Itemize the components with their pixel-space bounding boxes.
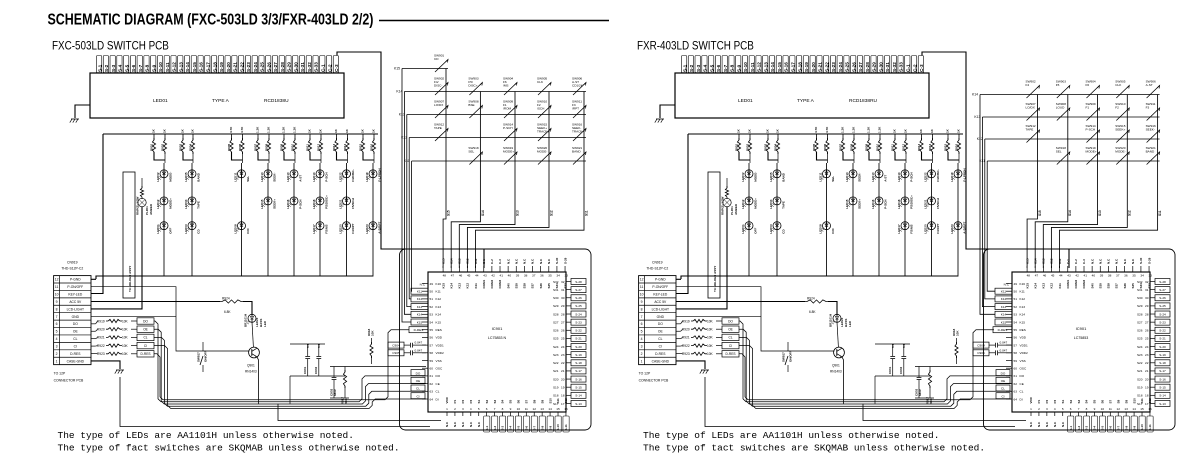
switch SW905 (CLK) xyxy=(1116,86,1129,99)
svg-text:FS/MS: FS/MS xyxy=(324,225,328,234)
pin 52 (K13) xyxy=(422,306,428,308)
IC IC901 LC75853 xyxy=(428,272,566,412)
svg-text:S1: S1 xyxy=(477,399,481,403)
svg-text:7: 7 xyxy=(56,315,58,319)
svg-text:S-13: S-13 xyxy=(1159,402,1166,406)
wire: LED column xyxy=(931,163,933,277)
wire: switch matrix column 2 xyxy=(1067,95,1069,218)
svg-text:LED02: LED02 xyxy=(741,172,745,182)
pin 16 xyxy=(1149,412,1151,416)
svg-text:S-17: S-17 xyxy=(1159,369,1166,373)
svg-text:CN919: CN919 xyxy=(652,261,663,265)
net CL label xyxy=(996,385,1010,391)
wire: osc gnd rail xyxy=(330,397,349,399)
net S-13 stub xyxy=(1155,400,1170,406)
svg-text:S-2: S-2 xyxy=(493,426,497,431)
svg-text:S21: S21 xyxy=(1137,369,1143,373)
net S-3 stub xyxy=(500,416,506,432)
svg-text:S-28: S-28 xyxy=(575,280,582,284)
wire: P-GND to cathode bus xyxy=(676,278,681,280)
net S-18 stub xyxy=(1155,360,1170,366)
svg-text:S-23: S-23 xyxy=(831,62,836,72)
svg-text:CD1/2K: CD1/2K xyxy=(572,83,584,87)
svg-text:N.C: N.C xyxy=(1045,421,1049,427)
switch SW904 (F6) xyxy=(504,83,517,96)
pin 46 (K13) xyxy=(1042,266,1044,272)
svg-text:LED03: LED03 xyxy=(769,224,773,234)
pin 13 xyxy=(541,412,543,416)
wire: LED module to ground xyxy=(660,105,675,118)
LED LED10 xyxy=(290,170,298,178)
svg-text:K15: K15 xyxy=(394,67,400,71)
svg-text:LED12: LED12 xyxy=(741,199,745,209)
wire: pair junction xyxy=(922,152,933,160)
svg-text:P2: P2 xyxy=(461,399,465,403)
svg-text:DO: DO xyxy=(658,322,663,326)
wire: K11 to IC xyxy=(410,161,413,291)
switch SW910 (F2) xyxy=(538,106,551,119)
svg-text:K11: K11 xyxy=(474,258,478,264)
svg-text:DO: DO xyxy=(1020,374,1025,378)
wire: pair junction xyxy=(817,152,828,160)
svg-text:1.2K: 1.2K xyxy=(878,126,882,133)
svg-text:F1: F1 xyxy=(1086,105,1090,109)
svg-text:LED: LED xyxy=(263,320,267,327)
svg-text:P1: P1 xyxy=(1037,399,1041,403)
svg-text:K12: K12 xyxy=(466,283,470,289)
svg-text:33: 33 xyxy=(1149,274,1153,278)
net S-22 stub xyxy=(571,327,586,333)
svg-text:S-29: S-29 xyxy=(1147,257,1151,264)
svg-text:S36: S36 xyxy=(1123,283,1127,289)
svg-text:S37: S37 xyxy=(1115,283,1119,289)
svg-text:6: 6 xyxy=(1070,407,1072,411)
svg-text:41: 41 xyxy=(499,274,503,278)
svg-text:K14: K14 xyxy=(449,283,453,289)
svg-text:63: 63 xyxy=(1014,390,1018,394)
svg-text:R916: R916 xyxy=(954,143,958,151)
pin 12 xyxy=(1117,412,1119,416)
svg-text:OE: OE xyxy=(1001,379,1005,383)
svg-text:DO: DO xyxy=(73,322,78,326)
svg-text:TAPE: TAPE xyxy=(196,201,200,209)
wire: K12 to IC xyxy=(409,138,411,299)
svg-text:1.2K: 1.2K xyxy=(867,126,871,133)
svg-text:C901: C901 xyxy=(303,366,307,374)
svg-text:TO 12P: TO 12P xyxy=(639,372,651,376)
svg-text:DO: DO xyxy=(1001,371,1006,375)
LED LED03 xyxy=(773,222,781,230)
capacitor C902 0.1 xyxy=(903,344,905,356)
svg-text:S3: S3 xyxy=(1077,399,1081,403)
svg-text:S-10: S-10 xyxy=(158,62,163,72)
svg-text:52: 52 xyxy=(1014,305,1018,309)
net OE label xyxy=(411,377,425,383)
svg-text:2: 2 xyxy=(641,352,643,356)
wire: DO to IC xyxy=(154,321,426,402)
wire: bottom bus xyxy=(863,404,1026,421)
switch SW906 (A-ST) xyxy=(573,83,586,96)
svg-text:49: 49 xyxy=(1014,282,1018,286)
pin 49 (K16) xyxy=(422,283,428,285)
svg-text:21: 21 xyxy=(1145,369,1149,373)
svg-text:39: 39 xyxy=(516,274,520,278)
svg-text:27: 27 xyxy=(561,320,565,324)
svg-text:A-ST: A-ST xyxy=(883,175,887,182)
pin 19 (S19) xyxy=(1150,386,1155,388)
svg-text:S-5: S-5 xyxy=(1101,426,1105,431)
pin 11 xyxy=(1109,412,1111,416)
svg-text:K13: K13 xyxy=(1020,305,1026,309)
svg-text:CLK: CLK xyxy=(1115,83,1122,87)
net S-5 stub xyxy=(515,416,521,432)
svg-text:S-4: S-4 xyxy=(703,64,708,72)
svg-text:R908: R908 xyxy=(849,143,853,151)
LED LED22 xyxy=(343,170,351,178)
pin 28 (S28) xyxy=(566,313,571,315)
svg-text:S35: S35 xyxy=(547,283,551,289)
svg-text:C904: C904 xyxy=(977,343,985,347)
switch SW907 (LO/DX) xyxy=(435,106,448,119)
title rule xyxy=(379,20,609,22)
pin 58 (VDD2) xyxy=(1006,352,1012,354)
resistor R913 xyxy=(921,134,923,140)
svg-text:P-SCH: P-SCH xyxy=(909,172,913,181)
svg-text:S-24: S-24 xyxy=(838,62,843,72)
svg-text:S6: S6 xyxy=(1101,399,1105,403)
pin 2 xyxy=(1038,412,1040,416)
net S-3 stub xyxy=(1084,416,1090,432)
svg-text:K15: K15 xyxy=(1025,283,1029,289)
net S-10 stub xyxy=(555,416,561,432)
resistor R921 10K xyxy=(91,338,96,340)
svg-text:R903: R903 xyxy=(178,143,182,151)
svg-text:N.C: N.C xyxy=(1053,421,1057,427)
svg-text:59: 59 xyxy=(430,359,434,363)
lamp PL901 AMBER xyxy=(138,198,146,206)
svg-text:64: 64 xyxy=(1014,397,1018,401)
svg-text:SEL: SEL xyxy=(468,149,474,153)
wire: LED column xyxy=(346,163,348,277)
svg-text:DISC+: DISC+ xyxy=(468,83,477,87)
net S-6 stub xyxy=(523,416,529,432)
svg-text:S26: S26 xyxy=(1137,329,1143,333)
pin 21 (S21) xyxy=(566,370,571,372)
pin 9 xyxy=(509,412,511,416)
LED LED23 (BR1101H) BASS LED xyxy=(833,314,841,322)
svg-text:K11: K11 xyxy=(436,290,442,294)
wire: column 1 to IC xyxy=(1027,217,1037,268)
svg-text:8: 8 xyxy=(56,307,58,311)
svg-text:S-33: S-33 xyxy=(314,62,319,72)
svg-text:S27: S27 xyxy=(1137,320,1143,324)
LED LED01 xyxy=(745,222,753,230)
net S-25 stub xyxy=(571,303,586,309)
svg-text:36K: 36K xyxy=(929,398,933,404)
svg-text:45: 45 xyxy=(467,274,471,278)
pin 56 (VDD) xyxy=(422,336,428,338)
svg-text:47: 47 xyxy=(1035,274,1039,278)
svg-text:LED13: LED13 xyxy=(312,172,316,182)
svg-text:S-5: S-5 xyxy=(517,426,521,431)
svg-text:S-32: S-32 xyxy=(307,62,312,72)
svg-text:S-7: S-7 xyxy=(138,64,143,72)
wire: column 2 to IC xyxy=(1035,217,1068,268)
wire: Q901 emitter down xyxy=(842,357,844,404)
net S-19 stub xyxy=(1155,352,1170,358)
svg-text:16: 16 xyxy=(564,407,568,411)
svg-text:7: 7 xyxy=(1078,407,1080,411)
svg-text:S-13: S-13 xyxy=(763,62,768,72)
pin 35 (S35) xyxy=(548,266,550,272)
capacitor C903 680P xyxy=(918,367,920,378)
svg-text:LED20: LED20 xyxy=(923,224,927,234)
LED display module LED01 (RCD1838RU) xyxy=(675,73,929,118)
svg-text:S-18: S-18 xyxy=(575,361,582,365)
svg-text:DI: DI xyxy=(436,397,439,401)
svg-text:LED15: LED15 xyxy=(845,199,849,209)
svg-text:CL: CL xyxy=(1020,390,1024,394)
svg-text:S-18: S-18 xyxy=(1159,361,1166,365)
svg-text:8: 8 xyxy=(1086,407,1088,411)
svg-text:P-ON/OFF: P-ON/OFF xyxy=(652,285,668,289)
net S-23 stub xyxy=(571,319,586,325)
svg-text:54: 54 xyxy=(1014,320,1018,324)
switch SW907 (LO/DX) xyxy=(1027,108,1040,121)
svg-text:55: 55 xyxy=(430,328,434,332)
pin 31 (S31) xyxy=(1150,289,1155,291)
svg-text:52: 52 xyxy=(430,305,434,309)
svg-text:10K: 10K xyxy=(122,336,129,340)
svg-text:C902: C902 xyxy=(314,366,318,374)
net K15 row xyxy=(402,68,448,70)
pin 1 xyxy=(446,412,448,416)
svg-text:S-27: S-27 xyxy=(858,62,863,72)
svg-text:44: 44 xyxy=(475,274,479,278)
wire: cap rail xyxy=(290,343,325,345)
svg-text:S-23: S-23 xyxy=(575,320,582,324)
svg-text:CL: CL xyxy=(1001,387,1005,391)
LED LED18 xyxy=(901,197,909,205)
svg-text:14: 14 xyxy=(1132,407,1136,411)
svg-text:12: 12 xyxy=(533,407,537,411)
pin 16 xyxy=(565,412,567,416)
resistor R904 xyxy=(777,134,779,140)
wire: GND rail xyxy=(676,315,761,317)
resistor R911 xyxy=(309,134,311,140)
svg-text:CL: CL xyxy=(143,336,147,340)
svg-text:S-8: S-8 xyxy=(540,426,544,431)
pin 40 (S40) xyxy=(1091,266,1093,272)
svg-text:18: 18 xyxy=(561,394,565,398)
net K13 stub xyxy=(995,304,1012,310)
svg-text:S12: S12 xyxy=(564,398,568,404)
svg-text:R913: R913 xyxy=(332,143,336,151)
LED LED04 xyxy=(773,197,781,205)
svg-text:S-13: S-13 xyxy=(575,402,582,406)
svg-text:26: 26 xyxy=(1145,329,1149,333)
svg-text:1: 1 xyxy=(641,359,643,363)
svg-text:R912: R912 xyxy=(316,143,320,151)
svg-text:S-7: S-7 xyxy=(723,64,728,72)
net S-1 stub xyxy=(1068,416,1074,432)
svg-text:1: 1 xyxy=(56,359,58,363)
svg-text:R915: R915 xyxy=(943,143,947,151)
svg-text:R922: R922 xyxy=(97,344,105,348)
svg-text:DISC-: DISC- xyxy=(434,83,442,87)
pin 56 (VDD) xyxy=(1006,336,1012,338)
pin 50 (K11) xyxy=(422,290,428,292)
svg-text:S-19: S-19 xyxy=(219,62,224,72)
svg-text:LC75853 N: LC75853 N xyxy=(488,336,507,340)
svg-text:S29: S29 xyxy=(553,304,559,308)
svg-text:S-22: S-22 xyxy=(1159,329,1166,333)
svg-text:COM2: COM2 xyxy=(490,280,494,289)
LED LED03 xyxy=(188,222,196,230)
pin 9 xyxy=(1093,412,1095,416)
svg-text:S-24: S-24 xyxy=(575,312,582,316)
svg-text:10K: 10K xyxy=(707,328,714,332)
svg-text:S24: S24 xyxy=(1137,345,1143,349)
svg-text:BSE: BSE xyxy=(468,103,474,107)
pin 63 (CL) xyxy=(1006,390,1012,392)
svg-text:The type of LEDs are AA1101H u: The type of LEDs are AA1101H unless othe… xyxy=(58,430,354,441)
pin 49 (K16) xyxy=(1006,283,1012,285)
svg-text:0.047: 0.047 xyxy=(415,348,423,352)
svg-text:CI: CI xyxy=(1001,394,1004,398)
pin 23 (S23) xyxy=(1150,354,1155,356)
svg-text:13: 13 xyxy=(540,407,544,411)
wire: CASE-GND to ground xyxy=(676,361,705,369)
svg-text:CI: CI xyxy=(659,344,662,348)
pin 42 (COM2) xyxy=(491,266,493,272)
wire: CL to IC xyxy=(739,337,1011,406)
svg-text:K14: K14 xyxy=(396,90,402,94)
svg-text:S-15: S-15 xyxy=(1159,385,1166,389)
wire: LED column xyxy=(826,163,828,277)
net S-25 stub xyxy=(1155,303,1170,309)
pin 34 (S34) xyxy=(556,266,558,272)
svg-text:VDD1: VDD1 xyxy=(436,343,445,347)
svg-text:COM3: COM3 xyxy=(498,280,502,289)
svg-text:S29: S29 xyxy=(1137,304,1143,308)
svg-text:LO/DX: LO/DX xyxy=(434,103,443,107)
svg-text:36: 36 xyxy=(540,274,544,278)
net K11 row xyxy=(412,160,586,162)
svg-text:S30: S30 xyxy=(1137,296,1143,300)
svg-text:SEEK-: SEEK- xyxy=(272,173,276,182)
svg-text:53: 53 xyxy=(1014,313,1018,317)
svg-text:CI: CI xyxy=(144,344,147,348)
pin 20 (S20) xyxy=(1150,378,1155,380)
svg-text:9: 9 xyxy=(56,300,58,304)
switch SW911 (F3) xyxy=(1147,108,1160,121)
svg-text:R923: R923 xyxy=(682,352,690,356)
svg-text:LED19: LED19 xyxy=(365,172,369,182)
pin 10 xyxy=(517,412,519,416)
pin 51 (K12) xyxy=(1006,298,1012,300)
svg-text:47: 47 xyxy=(451,274,455,278)
wire: bottom ground run xyxy=(120,377,430,427)
wire: LED column xyxy=(191,163,193,277)
svg-text:N.C: N.C xyxy=(1004,283,1010,287)
svg-text:S-29: S-29 xyxy=(563,257,567,264)
svg-text:MODE-: MODE- xyxy=(753,172,757,182)
svg-text:7: 7 xyxy=(494,407,496,411)
svg-text:42: 42 xyxy=(491,274,495,278)
svg-text:S-22: S-22 xyxy=(575,329,582,333)
net D-RES stub xyxy=(993,327,1012,333)
svg-text:R910: R910 xyxy=(875,143,879,151)
svg-text:/RPT: /RPT xyxy=(572,106,579,110)
svg-text:4: 4 xyxy=(470,407,472,411)
wire: lamp to LCD-LIGHT xyxy=(676,207,727,309)
svg-text:14: 14 xyxy=(548,407,552,411)
pin 59 (VSS) xyxy=(1006,360,1012,362)
svg-text:LED20: LED20 xyxy=(338,224,342,234)
svg-text:20: 20 xyxy=(561,377,565,381)
svg-text:R924: R924 xyxy=(807,297,815,301)
LED LED18 xyxy=(316,197,324,205)
svg-text:39: 39 xyxy=(1100,274,1104,278)
svg-text:TYPE A: TYPE A xyxy=(797,98,815,104)
svg-text:C-3: C-3 xyxy=(498,259,502,264)
svg-text:12: 12 xyxy=(1117,407,1121,411)
svg-text:57: 57 xyxy=(1014,343,1018,347)
svg-text:35: 35 xyxy=(1132,274,1136,278)
svg-text:29: 29 xyxy=(1145,304,1149,308)
svg-text:S21: S21 xyxy=(553,369,559,373)
svg-text:34: 34 xyxy=(1140,274,1144,278)
svg-text:CE: CE xyxy=(1020,382,1024,386)
pin 15 xyxy=(1141,412,1143,416)
net CI label xyxy=(137,342,154,348)
switch SW902 (F4) xyxy=(1027,86,1040,99)
LED LED11 xyxy=(238,170,246,178)
svg-text:S28: S28 xyxy=(1137,312,1143,316)
svg-text:R910: R910 xyxy=(290,143,294,151)
net S-23 stub xyxy=(1155,319,1170,325)
svg-text:S32: S32 xyxy=(553,280,559,284)
svg-text:4.7K: 4.7K xyxy=(229,126,233,133)
svg-text:CE: CE xyxy=(436,382,440,386)
wire: switch matrix column 3 xyxy=(1097,95,1099,218)
svg-text:30: 30 xyxy=(561,296,565,300)
svg-text:R911: R911 xyxy=(305,144,309,151)
svg-text:R901: R901 xyxy=(149,143,153,151)
svg-text:F-LPROH: F-LPROH xyxy=(377,168,381,181)
svg-text:S30: S30 xyxy=(553,296,559,300)
svg-text:R919: R919 xyxy=(682,319,690,323)
net OE label xyxy=(137,326,154,332)
svg-text:K15: K15 xyxy=(1020,320,1026,324)
net CI label xyxy=(722,342,739,348)
svg-text:8: 8 xyxy=(641,307,643,311)
pin 32 (S32) xyxy=(1150,281,1155,283)
svg-text:N.C: N.C xyxy=(1123,258,1127,264)
svg-text:COM1: COM1 xyxy=(482,280,486,289)
switch SW901 (CD) xyxy=(435,60,448,73)
svg-text:23: 23 xyxy=(561,353,565,357)
svg-text:55: 55 xyxy=(1014,328,1018,332)
svg-text:F4: F4 xyxy=(1026,83,1030,87)
pin 64 (DI) xyxy=(1006,398,1012,400)
pin 21 (S21) xyxy=(1150,370,1155,372)
net D-RES label xyxy=(137,351,154,357)
svg-text:19: 19 xyxy=(1145,385,1149,389)
resistor RMP(3)-1/2W xyxy=(726,178,728,188)
svg-text:D-RES: D-RES xyxy=(998,328,1008,332)
